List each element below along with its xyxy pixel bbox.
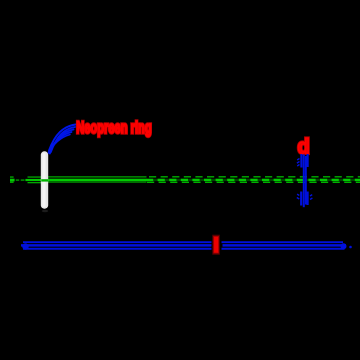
top head strokes — [300, 154, 302, 168]
dimension line l: right end dot — [341, 243, 347, 249]
tube centerline: left dashed segment — [10, 176, 41, 183]
tube centerline: solid middle segment — [48, 177, 147, 183]
dimension label "d" (red, glow) — [298, 135, 310, 159]
bottom head strokes — [300, 192, 302, 206]
dimension label "l" (red, glow) — [212, 235, 220, 255]
dimension line l (blue triple line) — [21, 242, 346, 249]
svg-text:Neopreen ring: Neopreen ring — [76, 119, 151, 138]
dimension d arrow (blue vertical multi-stroke, heads both ends) — [297, 154, 313, 207]
shaft — [303, 155, 305, 208]
label "Neopreen ring" (red, glow) — [76, 119, 151, 138]
leader arrow from label to ring (blue multi-stroke curve) — [49, 125, 76, 154]
dimension line l: left end dot — [22, 243, 28, 249]
green dash crossing the ring — [41, 179, 48, 181]
dimension line l: small stray dot right — [349, 246, 352, 249]
neoprene ring (white capsule bar) — [41, 151, 48, 212]
tube centerline: right dashed segment — [146, 177, 360, 183]
